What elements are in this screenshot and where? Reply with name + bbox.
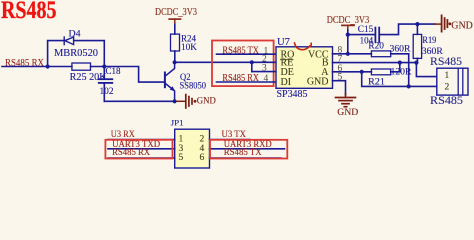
svg-text:JP1: JP1 — [171, 118, 184, 128]
node A bottom junction — [407, 84, 411, 88]
svg-text:SS8050: SS8050 — [180, 80, 207, 90]
svg-text:GND: GND — [451, 21, 473, 32]
node junction C18 — [102, 64, 106, 68]
transistor Q2 — [165, 62, 175, 101]
svg-text:GND: GND — [337, 108, 358, 118]
svg-text:GND: GND — [307, 77, 329, 88]
capacitor C15 — [348, 24, 435, 34]
wire pin8 VCC — [333, 53, 348, 55]
svg-text:R20: R20 — [368, 41, 384, 51]
wire R21 to B — [391, 63, 400, 72]
resistor R24 — [171, 34, 180, 51]
svg-text:RS485 RX: RS485 RX — [112, 148, 150, 158]
svg-text:5: 5 — [179, 153, 184, 163]
wire pin2 to pin3 — [251, 62, 253, 71]
wire ground rail — [104, 100, 174, 102]
wire RS485_RX to JP1 pin5 — [108, 157, 175, 159]
wire B to connector pin1 — [416, 63, 437, 77]
svg-text:102: 102 — [100, 86, 114, 96]
svg-text:D4: D4 — [69, 29, 81, 39]
svg-text:10K: 10K — [181, 42, 198, 52]
wire pin5 GND — [333, 81, 346, 95]
wire R19 bottom to B — [416, 58, 418, 62]
power port GND top right — [435, 15, 448, 31]
node junction left — [46, 64, 50, 68]
svg-text:R25 20K: R25 20K — [70, 72, 108, 83]
node A junction — [360, 70, 364, 74]
selection box bottom right — [210, 140, 287, 159]
svg-text:GND: GND — [197, 95, 216, 105]
wire pin2 RE — [252, 61, 276, 63]
wire DCDC down to pin8 — [347, 30, 349, 54]
wire DCDC to R24 — [174, 25, 176, 35]
wire RS485_RX main — [2, 67, 164, 83]
svg-text:RS485: RS485 — [430, 56, 462, 68]
svg-text:4: 4 — [264, 74, 269, 84]
wire node to RE/DE — [175, 61, 252, 63]
connector JP1 body — [175, 129, 210, 168]
svg-text:6: 6 — [200, 153, 205, 163]
resistor R21 — [371, 69, 390, 75]
wire pin3 DE — [252, 71, 276, 73]
svg-text:5: 5 — [338, 73, 343, 83]
svg-text:RS485: RS485 — [430, 95, 463, 107]
svg-text:C15: C15 — [358, 24, 374, 34]
selection box bottom left — [105, 140, 172, 159]
node R19 top junction — [415, 22, 419, 26]
wire A to connector pin2 — [362, 72, 437, 87]
svg-text:3: 3 — [262, 64, 267, 74]
wire pin6 A line — [333, 71, 372, 73]
wire R24 to node — [174, 51, 176, 62]
svg-text:360R: 360R — [390, 44, 412, 54]
resistor R19 — [416, 24, 418, 34]
svg-text:RS485 TX: RS485 TX — [224, 148, 262, 158]
svg-text:DCDC_3V3: DCDC_3V3 — [155, 7, 197, 18]
wire pin1 RO — [217, 53, 277, 55]
svg-text:SP3485: SP3485 — [277, 89, 308, 100]
svg-text:RS485: RS485 — [1, 0, 57, 24]
resistor R25 — [72, 63, 91, 70]
svg-text:C18: C18 — [106, 66, 121, 76]
svg-text:R19: R19 — [422, 35, 436, 45]
svg-text:RS485 RX: RS485 RX — [5, 58, 45, 69]
wire pin4 DI — [217, 81, 277, 83]
capacitor C18 — [103, 67, 105, 102]
connector RS485 body — [437, 68, 468, 95]
node collector junction — [173, 60, 177, 64]
wire R20 to A bottom — [391, 54, 409, 87]
wire JP1 pin6 to RS485_TX — [210, 157, 282, 159]
no-ERC marker red arc — [295, 43, 312, 50]
svg-text:U3 TX: U3 TX — [222, 130, 247, 140]
ground earth under U7 — [336, 98, 356, 107]
wire diode branch — [48, 41, 105, 67]
power port GND at emitter — [177, 95, 192, 108]
node VCC junction — [346, 52, 350, 56]
node emitter junction — [173, 99, 177, 103]
wire JP1 pin2 to U3_TX — [210, 139, 251, 141]
svg-text:U3 RX: U3 RX — [111, 130, 135, 140]
node C15 tap — [346, 33, 350, 37]
resistor R20 — [348, 53, 372, 55]
svg-text:MBR0520: MBR0520 — [54, 48, 98, 59]
node B R19 junction — [414, 61, 418, 65]
wire UART3_TXD to JP1 pin3 — [108, 148, 175, 150]
svg-text:DI: DI — [281, 77, 292, 88]
diode D4 — [64, 37, 73, 45]
svg-text:2: 2 — [445, 82, 450, 92]
node B R21 junction — [398, 61, 402, 65]
selection box around RS485_TX RS485_RX labels — [212, 41, 274, 87]
svg-text:1: 1 — [445, 71, 450, 81]
wire U3_RX to JP1 pin1 — [108, 139, 175, 141]
wire JP1 pin4 to UART3_RXD — [210, 148, 285, 150]
wire pin7 B line — [333, 62, 417, 64]
node pin2/3 junction — [250, 60, 254, 64]
